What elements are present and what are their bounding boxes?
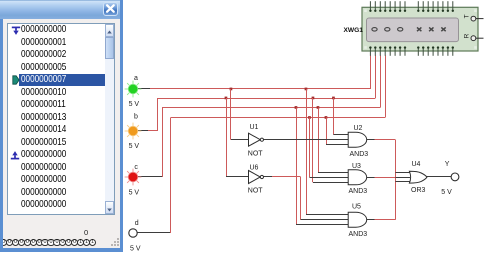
close button (103, 2, 118, 16)
svg-text:XWG1: XWG1 (344, 27, 364, 34)
wire U5 output to OR bus (367, 219, 396, 221)
svg-text:U4: U4 (412, 161, 421, 168)
svg-text:5 V: 5 V (130, 246, 141, 253)
wire net b branch to U6 input (226, 98, 249, 177)
display digit O1 (372, 28, 377, 32)
svg-text:5 V: 5 V (129, 190, 140, 197)
junction on net a at x=306 (305, 88, 308, 91)
wire net b branch to U3 input 3 (313, 98, 349, 183)
probe Y output (451, 173, 459, 181)
buffer word list (7, 23, 115, 215)
wire U4 input stub 3 (395, 181, 410, 183)
wire net a branch to U5 input 1 (306, 89, 349, 215)
svg-text:c: c (134, 164, 138, 171)
wire net c branch to U3 input 1 (318, 108, 349, 173)
junction on net c at x=318 (317, 106, 320, 109)
title bar (0, 0, 123, 19)
wire net c: probe c up to y=107.5 then right to word generator (138, 56, 381, 178)
output bit circles (0, 215, 120, 248)
NOT gate U1 (249, 133, 264, 146)
display digit X1 (417, 27, 421, 31)
word generator top pins (369, 1, 454, 12)
svg-text:a: a (134, 75, 138, 82)
wire net b branch to U2 input 1 (334, 98, 349, 135)
svg-text:U5: U5 (352, 204, 361, 211)
svg-text:AND3: AND3 (349, 231, 368, 238)
word generator R terminal (464, 33, 484, 40)
junction on net d at x=309.5 (308, 116, 311, 119)
word generator T terminal (464, 14, 484, 21)
svg-text:U1: U1 (250, 124, 259, 131)
svg-text:NOT: NOT (248, 151, 263, 158)
probe a (125, 81, 142, 98)
wire net a: probe a to word generator pin, horizontal y=89 (138, 56, 371, 90)
svg-text:NOT: NOT (248, 188, 263, 195)
svg-text:T: T (464, 14, 471, 18)
svg-text:AND3: AND3 (350, 151, 369, 158)
probe b (125, 123, 142, 140)
junction on net b at x=313 (312, 97, 315, 100)
svg-text:U3: U3 (352, 163, 361, 170)
display digit O2 (385, 28, 390, 32)
svg-text:U6: U6 (250, 165, 259, 172)
word generator bottom pins (369, 46, 454, 55)
OR3 gate U4 (409, 171, 427, 183)
svg-text:5 V: 5 V (129, 101, 140, 108)
wire U4 input stub 1 (395, 172, 410, 174)
word generator XWG1 body (362, 7, 478, 51)
AND3 gate U2 (348, 132, 366, 147)
list scrollbar (105, 24, 114, 214)
resize grip (111, 238, 120, 247)
display digit X2 (429, 27, 433, 31)
wire net d branch to U3 input 2 (310, 117, 349, 177)
probe d (129, 229, 137, 237)
svg-text:R: R (464, 33, 471, 38)
display digit X3 (441, 27, 445, 31)
wire U2 output to OR bus (367, 139, 396, 141)
junction on net b at x=333.5 (332, 97, 335, 100)
word generator corner markers (364, 9, 477, 48)
junction on net a at x=231 (230, 88, 233, 91)
wire U4 output to probe Y (427, 176, 451, 178)
svg-text:5 V: 5 V (441, 189, 452, 196)
junction on net b at x=226 (225, 97, 228, 100)
AND3 gate U5 (348, 212, 366, 227)
junction on net c at x=296 (295, 106, 298, 109)
wire OR input bus vertical (395, 140, 397, 220)
svg-text:5 V: 5 V (129, 143, 140, 150)
probe c (125, 169, 142, 186)
wire net d: probe d up to y=117 then right to word generator (137, 56, 386, 234)
wire net a branch to U1 input (231, 89, 249, 140)
svg-text:OR3: OR3 (411, 187, 426, 194)
svg-text:U2: U2 (354, 125, 363, 132)
wire U3 output to OR bus (367, 177, 396, 179)
wire net d branch to U2 input 3 (326, 117, 349, 144)
display digit O3 (398, 28, 403, 32)
wire net c branch to U5 input 3 (296, 108, 349, 225)
svg-text:Y: Y (445, 161, 450, 168)
wire U4 input stub 2 (395, 177, 410, 179)
wire U6 output to U5 input 2 (264, 177, 349, 220)
junction on net d at x=326 (325, 116, 328, 119)
wire net b: probe b up to y=98 then right to word generator (138, 56, 376, 132)
bit index label 0 (84, 228, 96, 237)
svg-text:d: d (135, 220, 139, 227)
svg-text:b: b (134, 114, 138, 121)
word generator control panel window (0, 0, 123, 252)
AND3 gate U3 (348, 170, 366, 185)
wire U1 output to U2 input 2 (264, 139, 349, 141)
svg-text:AND3: AND3 (349, 188, 368, 195)
NOT gate U6 (249, 171, 264, 184)
